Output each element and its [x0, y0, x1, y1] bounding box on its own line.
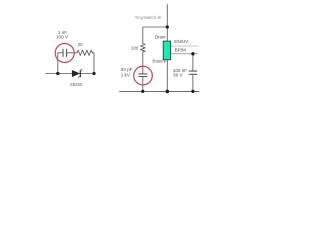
node junction dot rail source	[166, 90, 170, 94]
svg-text:SB360: SB360	[70, 82, 83, 87]
svg-text:20: 20	[78, 42, 83, 47]
node junction dot rail clamp	[141, 90, 144, 93]
svg-text:TinySwitch-III: TinySwitch-III	[135, 15, 162, 20]
wire EN/UV pin	[171, 45, 199, 47]
node junction dot rail bypass	[191, 90, 194, 93]
node junction dot BP/M	[191, 52, 194, 55]
svg-text:BP/M: BP/M	[175, 48, 186, 53]
node junction dot drain branch	[166, 25, 169, 28]
wire resistor right down	[93, 53, 95, 74]
op IC U1 TinySwitch-III block	[163, 41, 171, 60]
svg-text:50 V: 50 V	[173, 73, 183, 78]
node junction dot right	[92, 72, 95, 75]
resistor R2 100 zigzag	[140, 44, 145, 53]
wire source rail	[120, 90, 200, 92]
wire drain vertical	[166, 5, 168, 42]
svg-text:1 kV: 1 kV	[121, 72, 131, 77]
wire cap to rail	[142, 77, 144, 92]
wire BP/M cap branch vertical	[192, 54, 194, 71]
capacitor C1 plates	[62, 49, 64, 56]
wire cap to resistor	[67, 52, 77, 54]
wire cap left lead down	[58, 53, 63, 74]
node junction dot left	[56, 72, 59, 75]
resistor R1 20 zigzag	[77, 50, 93, 55]
svg-text:EN/UV: EN/UV	[174, 39, 189, 44]
wire source pin down	[166, 60, 168, 92]
wire BP/M pin	[171, 53, 198, 55]
diode D1 SB360	[72, 69, 82, 79]
wire clamp branch connector	[143, 27, 168, 44]
wire bottom-left stub	[46, 73, 94, 75]
svg-text:Drain: Drain	[155, 34, 166, 39]
wire resistor to cap	[142, 52, 144, 74]
red highlight circle around C1	[55, 44, 74, 63]
svg-text:100 V: 100 V	[56, 35, 69, 40]
wire cap3 to rail	[192, 74, 194, 91]
svg-text:Source: Source	[152, 59, 166, 64]
red highlight circle around C2	[134, 66, 153, 85]
capacitor C2 33pF plates	[139, 73, 147, 75]
capacitor C3 100nF plates	[189, 70, 196, 72]
svg-text:100: 100	[131, 46, 139, 51]
